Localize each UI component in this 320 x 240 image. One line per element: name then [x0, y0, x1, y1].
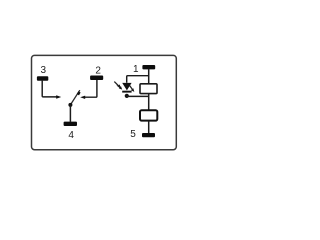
terminal pad 5	[142, 133, 155, 137]
diode D1 triangle	[122, 83, 131, 91]
diode D1 cathode bar	[122, 91, 131, 93]
arrowhead toward switch from 2	[80, 96, 85, 99]
wire branch to diode	[127, 76, 149, 83]
arrow at diode lower right	[130, 86, 133, 90]
resistor R1	[140, 84, 157, 94]
switch armature blade	[70, 90, 79, 105]
svg-text:3: 3	[41, 65, 47, 76]
photo arrow 2	[117, 85, 120, 88]
wire pivot to pad 4	[69, 105, 71, 122]
terminal pad 1	[142, 65, 155, 69]
junction dot	[125, 94, 129, 98]
terminal pad 2	[90, 76, 103, 81]
switch pivot junction	[68, 103, 72, 107]
svg-text:2: 2	[95, 66, 101, 77]
wire coil to pad 5	[148, 121, 150, 134]
terminal pad 4	[64, 122, 77, 126]
svg-text:4: 4	[68, 130, 74, 141]
wire resistor to coil	[148, 94, 150, 111]
wire from pad 2	[85, 80, 97, 97]
relay coil K1	[140, 110, 157, 120]
schematic border	[32, 55, 177, 149]
armature tip tick	[78, 92, 80, 95]
wire from pad 3	[42, 81, 57, 97]
svg-text:1: 1	[133, 64, 139, 75]
wire pad 1 down to resistor	[148, 69, 150, 84]
svg-text:5: 5	[130, 129, 136, 140]
terminal pad 3	[37, 76, 48, 81]
arrowhead toward switch from 3	[56, 95, 61, 98]
photo arrow 1	[114, 82, 119, 87]
wire diode to main line	[127, 95, 149, 97]
